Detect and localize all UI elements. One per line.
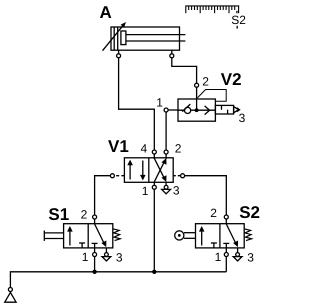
valve V2 port 1 node: [164, 108, 168, 112]
valve S1 port 3 node: [105, 253, 109, 257]
valve S1 left cell up arrow: [69, 229, 71, 246]
valve V2 junction dot: [195, 108, 199, 112]
valve V1 port 2 node: [164, 150, 168, 154]
valve V2 check seat line: [182, 104, 190, 112]
valve S1 left cell blocked port T: [81, 243, 83, 248]
svg-text:2: 2: [210, 206, 217, 220]
cylinder A piston rod: [126, 34, 185, 36]
cylinder A cushion block: [121, 31, 126, 45]
svg-text:2: 2: [175, 142, 182, 156]
valve S2 right cell blocked port T: [225, 243, 227, 248]
valve S2 port 1 node: [224, 253, 228, 257]
cylinder A piston: [113, 27, 115, 50]
valve V2 port 2 stub: [196, 87, 198, 99]
valve V2 flow arrowhead: [205, 106, 210, 115]
ruler S2 marker tick top: [236, 11, 238, 13]
valve S1 spring: [113, 229, 120, 241]
svg-text:4: 4: [141, 142, 148, 156]
valve S1 right cell diagonal arrow: [95, 224, 105, 244]
ruler S2 marker tick bottom: [236, 26, 238, 29]
bus wire bottom: [10, 272, 226, 288]
svg-text:2: 2: [81, 207, 88, 221]
valve V1 body: [124, 158, 173, 183]
valve V1 left cell up arrow: [129, 163, 131, 180]
cylinder A left port stub: [118, 50, 120, 54]
valve S1 port 3 exhaust triangle: [102, 257, 111, 261]
valve V2 port 2 node: [195, 83, 199, 87]
svg-text:S2: S2: [231, 13, 246, 27]
valve V1 left pilot node: [110, 174, 114, 178]
valve V1 port 1 stub: [153, 182, 155, 185]
valve V2 leader line: [197, 90, 226, 102]
valve V1 port 3 stub: [165, 182, 167, 185]
valve S1 port 1 stub: [94, 248, 96, 253]
svg-text:V2: V2: [221, 70, 242, 89]
wire cylinder left port to V1 port 4: [119, 58, 155, 150]
valve S2 port 1 stub: [225, 248, 227, 253]
valve V2 port 1 stub: [168, 109, 178, 111]
wire V1 port 1 to bus: [153, 189, 155, 271]
valve V1 left cell down arrow: [142, 161, 144, 178]
wire cylinder right port to V2 port 2: [172, 58, 197, 83]
svg-text:S1: S1: [48, 205, 69, 224]
valve V2 body: [178, 99, 215, 121]
valve S1 port 3 stub: [105, 248, 107, 253]
svg-text:3: 3: [173, 184, 180, 198]
svg-text:3: 3: [239, 111, 246, 125]
wire S2 port 1 to bus: [225, 257, 227, 272]
valve V1 right cell cross arrow 1: [154, 161, 164, 182]
junction dot S1: [92, 270, 96, 274]
valve S2 port 3 stub: [237, 248, 239, 253]
valve S2 roller: [175, 231, 184, 240]
svg-text:V1: V1: [108, 137, 129, 156]
valve V1 port 4 node: [152, 150, 156, 154]
valve S1 push button: [43, 231, 45, 241]
valve S1 body: [64, 224, 113, 248]
valve S2 body: [196, 224, 245, 248]
svg-text:1: 1: [142, 184, 149, 198]
valve S2 port 3 exhaust triangle: [233, 257, 242, 261]
compressed air source triangle: [5, 292, 16, 302]
valve V1 port 3 exhaust triangle: [162, 189, 171, 193]
svg-text:S2: S2: [239, 203, 260, 222]
valve V1 port 3 node: [164, 185, 168, 189]
valve V2 internal vertical from port 2: [196, 99, 198, 110]
wire V2 port 1 to V1 port 2: [165, 112, 167, 150]
svg-text:1: 1: [215, 250, 222, 264]
wire V1 right pilot to S2 port 2: [185, 176, 227, 215]
valve S2 left cell blocked port T: [213, 243, 215, 248]
valve V2 check ball: [185, 107, 191, 113]
svg-text:A: A: [100, 3, 112, 22]
valve S1 divider: [87, 224, 89, 248]
valve V1 divider: [148, 158, 150, 183]
valve S2 spring: [244, 229, 251, 241]
cylinder A right port node: [170, 54, 174, 58]
svg-text:3: 3: [116, 250, 123, 264]
svg-text:1: 1: [82, 250, 89, 264]
valve S2 port 2 stub: [225, 219, 227, 224]
valve S1 port 2 node: [93, 215, 97, 219]
valve S2 port 2 node: [224, 215, 228, 219]
valve V1 right cell cross arrow 2: [154, 158, 164, 179]
valve S2 left cell up arrow: [201, 229, 203, 246]
valve V1 right pilot dashed stub: [173, 175, 180, 177]
valve V1 left pilot dashed stub: [115, 175, 125, 177]
cylinder A body: [111, 27, 180, 50]
junction dot V1: [152, 270, 156, 274]
valve V1 port 1 node: [152, 185, 156, 189]
valve V2 silencer nozzle: [234, 107, 239, 113]
valve V1 port 2 stub: [165, 154, 167, 159]
svg-text:1: 1: [156, 95, 163, 109]
ruler scale: [185, 6, 239, 13]
svg-text:2: 2: [202, 75, 209, 89]
valve S2 divider: [219, 224, 221, 248]
valve S2 right cell diagonal arrow: [226, 224, 236, 244]
wire S1 port 1 to bus: [94, 257, 96, 272]
valve S1 port 2 stub: [94, 219, 96, 224]
valve S1 port 1 node: [93, 253, 97, 257]
valve S2 port 3 node: [236, 253, 240, 257]
wire V1 left pilot to S1 port 2: [95, 176, 111, 215]
compressed air source node: [8, 288, 12, 292]
valve V1 right pilot node: [181, 174, 185, 178]
cylinder A right port stub: [171, 50, 173, 54]
valve V1 port 4 stub: [153, 154, 155, 159]
valve V2 internal flow line: [178, 109, 215, 111]
svg-text:3: 3: [247, 250, 254, 264]
cylinder A adjustability arrow: [103, 24, 125, 50]
valve S1 right cell blocked port T: [94, 243, 96, 248]
valve V2 silencer: [215, 105, 233, 114]
cylinder A left port node: [117, 54, 121, 58]
